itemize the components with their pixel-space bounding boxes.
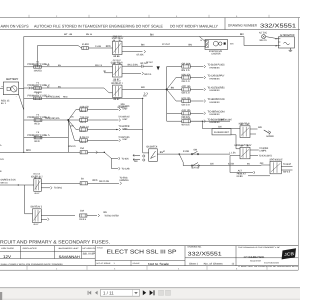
node branch152 <box>104 152 105 153</box>
connector FB4 <box>204 100 206 103</box>
zone numbers bottom <box>56 267 238 270</box>
svg-text:GN 1.0: GN 1.0 <box>182 80 191 83</box>
node boom light tee <box>202 121 203 122</box>
svg-text:GN 0.5: GN 0.5 <box>69 145 77 148</box>
wire left fan ray1 <box>68 110 79 121</box>
wire seat module out2 <box>281 169 292 171</box>
svg-text:DRAWING NUMBER: DRAWING NUMBER <box>228 24 258 28</box>
svg-text:& MOTOR: & MOTOR <box>211 53 220 56</box>
svg-text:-: - <box>16 96 17 99</box>
wire fuse4 row to node <box>24 119 69 121</box>
relay K5 headlight <box>240 147 250 159</box>
wire flasher out <box>231 135 240 149</box>
svg-text:GN: GN <box>210 163 214 166</box>
connector FB6 <box>204 120 206 123</box>
svg-text:TO ACCESSORIES: TO ACCESSORIES <box>208 87 225 90</box>
svg-text:GN 0.5: GN 0.5 <box>144 73 152 76</box>
wire seat module in <box>261 164 270 166</box>
node k6 feed <box>18 184 19 185</box>
wire headlight out upper <box>250 149 259 151</box>
wire battery stub left <box>0 88 3 90</box>
wire battery to bus <box>19 88 24 90</box>
relay K2 glow <box>113 65 123 78</box>
connector secondary <box>96 151 98 154</box>
sheet bottom border <box>0 269 298 271</box>
svg-text:RED: RED <box>35 140 40 143</box>
svg-text:LAMPS: LAMPS <box>259 150 266 153</box>
svg-text:HORN: HORN <box>267 135 274 138</box>
svg-text:RCUIT AND PRIMARY & SECONDARY: RCUIT AND PRIMARY & SECONDARY FUSES. <box>0 239 110 244</box>
node ignition branch <box>179 153 180 154</box>
svg-text:TO IGN: TO IGN <box>122 157 129 160</box>
fuse F3 primary <box>34 97 42 100</box>
svg-text:GN 0.5: GN 0.5 <box>80 121 87 124</box>
svg-text:RED: RED <box>93 179 98 182</box>
toolbar corner block <box>0 292 2 300</box>
svg-text:BN: BN <box>104 211 108 214</box>
scale cell divider <box>130 260 132 265</box>
wire boom light row extension <box>190 120 230 122</box>
fuse FC4 <box>80 139 88 142</box>
svg-text:TO CAB SUPPLY: TO CAB SUPPLY <box>208 75 225 78</box>
svg-text:No. of Sheets: No. of Sheets <box>204 262 224 265</box>
fuse FB3 cab <box>182 88 191 91</box>
svg-text:10A: 10A <box>80 209 85 212</box>
wire main +B bus vertical <box>23 37 25 153</box>
svg-text:GN: GN <box>143 94 147 97</box>
svg-text:GP 30A: GP 30A <box>182 62 191 65</box>
node fuse fan top <box>166 88 168 90</box>
svg-text:IGN RELAY 3: IGN RELAY 3 <box>31 206 43 209</box>
svg-text:86: 86 <box>34 176 36 179</box>
wire fuse1 riser <box>37 46 39 67</box>
svg-text:Sheet 1: Sheet 1 <box>189 262 199 265</box>
wire FB6 out <box>190 120 203 122</box>
connector FB2 <box>204 76 206 79</box>
wire fan ray down-diagonal <box>167 89 176 101</box>
wire k6 drop to k7 <box>24 185 26 214</box>
svg-text:ST 2517: ST 2517 <box>162 43 171 46</box>
relay K1 starter <box>113 41 123 54</box>
seat module U1 <box>270 161 281 174</box>
node fuse fan left <box>67 119 69 121</box>
svg-text:BUSINESS UNIT: BUSINESS UNIT <box>59 247 80 250</box>
wire k6 feed <box>0 184 34 186</box>
connector FC1 <box>119 108 121 111</box>
connector battery splice <box>29 87 30 90</box>
circle key contacts <box>143 155 145 157</box>
sheet header bottom line <box>0 29 300 31</box>
svg-text:BATTERY: BATTERY <box>6 78 18 81</box>
svg-text:TO SEAT: TO SEAT <box>283 163 291 166</box>
svg-text:RED 2.5: RED 2.5 <box>95 64 103 67</box>
connector glow plugs <box>142 65 153 68</box>
connector FB3 <box>204 88 206 91</box>
svg-text:VOLTAGE: VOLTAGE <box>1 247 15 250</box>
node wiper row <box>116 129 117 130</box>
svg-text:BN: BN <box>240 33 244 36</box>
fuse F2 primary <box>34 87 42 90</box>
svg-text:SEAT MODULE: SEAT MODULE <box>270 158 283 161</box>
svg-text:UNIT: UNIT <box>123 138 129 141</box>
svg-text:B GN 0.5: B GN 0.5 <box>80 136 90 139</box>
svg-text:1 / 11: 1 / 11 <box>103 291 114 296</box>
svg-text:GN 2.0: GN 2.0 <box>182 103 191 106</box>
svg-text:TO CAB: TO CAB <box>122 167 130 170</box>
svg-text:TO HEATER FAN: TO HEATER FAN <box>208 98 225 101</box>
svg-text:TITLE: TITLE <box>97 246 104 249</box>
svg-text:TO BOOM LIGHT: TO BOOM LIGHT <box>218 118 232 121</box>
wire alternator feed <box>244 37 278 46</box>
svg-text:RED: RED <box>26 149 31 152</box>
fuse FC3 <box>80 128 88 131</box>
svg-text:ALTERNATOR: ALTERNATOR <box>280 34 295 37</box>
fuse F8 eng <box>80 182 87 185</box>
wire F8 out <box>88 182 120 184</box>
fuse FB2 cab <box>182 76 191 79</box>
svg-text:IGN 15A: IGN 15A <box>182 73 191 76</box>
flasher unit box <box>212 129 231 135</box>
svg-text:UNIT: UNIT <box>123 127 129 130</box>
wire headlight aux drop <box>230 155 240 157</box>
svg-text:J.C.BAMFORD.: J.C.BAMFORD. <box>243 255 265 259</box>
svg-text:SSL III SP: SSL III SP <box>83 253 96 256</box>
sheet right border <box>297 18 299 270</box>
wire branch to ignition connectors <box>112 158 119 160</box>
wire horn out <box>250 128 258 130</box>
svg-text:HT +B: HT +B <box>64 33 72 36</box>
wire wiper row extension <box>123 129 143 131</box>
fuse F9 eng2 <box>80 214 87 217</box>
svg-text:HARNESS: HARNESS <box>210 77 221 80</box>
wire left fan drop <box>67 120 69 152</box>
svg-text:WH 0.5: WH 0.5 <box>260 39 268 42</box>
svg-text:Not to Scale: Not to Scale <box>148 262 169 266</box>
wire FB3 out <box>190 88 203 90</box>
title block bottom line <box>0 265 298 267</box>
wire battery negative diagonal <box>19 95 24 110</box>
ground alternator <box>289 48 293 51</box>
JCB logo <box>282 248 296 259</box>
svg-text:GN: GN <box>218 126 222 129</box>
svg-text:30: 30 <box>247 145 249 148</box>
node fuse3 junction <box>142 98 143 99</box>
connector ignition aux1 <box>133 154 134 157</box>
connector k2 lower <box>142 72 144 75</box>
svg-text:0.5 GN: 0.5 GN <box>228 163 234 166</box>
fuse FB6 cab <box>182 120 191 123</box>
toolbar next button <box>143 290 146 295</box>
svg-text:THE DRAWING IS THE PROPERTY OF: THE DRAWING IS THE PROPERTY OF <box>238 246 280 249</box>
svg-text:IGN 0.5: IGN 0.5 <box>33 173 40 176</box>
wire k2 in lower <box>104 72 113 74</box>
svg-text:HTR 20A: HTR 20A <box>182 97 191 100</box>
switch PTO on ign row <box>191 151 199 155</box>
wire k7 out lower <box>41 218 47 220</box>
connector ignition aux2 <box>133 158 134 161</box>
svg-text:HARNESS: HARNESS <box>210 101 221 104</box>
svg-text:L 1.5A: L 1.5A <box>230 151 236 154</box>
fuse F6 starter relay <box>82 47 89 50</box>
title block values bottom line <box>0 258 95 260</box>
svg-text:12V: 12V <box>3 255 12 259</box>
svg-text:RED(LINK) 50A: RED(LINK) 50A <box>46 117 60 120</box>
zone numbers top <box>56 15 238 18</box>
wire branch diag to connectors <box>104 152 118 168</box>
wire seat switch branch <box>179 154 183 166</box>
svg-text:TO BEACON: TO BEACON <box>208 111 225 114</box>
svg-text:BN 16: BN 16 <box>86 33 93 36</box>
relay K4 horn <box>240 126 250 138</box>
zone ticks bottom <box>27 266 267 270</box>
svg-text:TO DIAG: TO DIAG <box>54 187 62 190</box>
wire ignition feed elbow <box>143 152 149 154</box>
svg-text:HARNESS: HARNESS <box>210 113 221 116</box>
svg-text:30: 30 <box>39 176 41 179</box>
svg-text:FLASHER UNIT: FLASHER UNIT <box>214 131 229 134</box>
connector FB5 <box>204 112 206 115</box>
wire k7 out <box>41 215 75 217</box>
svg-text:GN 1.0: GN 1.0 <box>182 92 191 95</box>
wire k7 feed <box>25 213 33 215</box>
svg-text:IGN RELAY 2: IGN RELAY 2 <box>31 175 43 178</box>
wire fan ray up-diagonal <box>167 78 176 90</box>
connector FC4 <box>119 139 121 142</box>
header separator <box>224 18 226 30</box>
wire k1 out to starter solenoid <box>122 46 205 48</box>
wire fuse2 to ign relay jog <box>104 88 113 93</box>
svg-text:RED: RED <box>106 45 111 48</box>
wire secondary bus row <box>0 151 104 153</box>
wire ignition feed drop <box>142 98 144 153</box>
svg-text:REPLACES: REPLACES <box>23 247 38 250</box>
wire fan ray up <box>166 67 168 90</box>
svg-text:GP 2517: GP 2517 <box>113 59 122 62</box>
svg-text:85 87: 85 87 <box>34 223 40 226</box>
wire seat module lower in <box>248 175 270 177</box>
wire fuse2 row <box>24 87 104 89</box>
wire starter drop <box>199 37 205 42</box>
wire horn relay feed step <box>202 121 240 128</box>
connector lower2 <box>119 157 121 160</box>
wire FB5 out <box>190 112 203 114</box>
wire fuse1 row <box>24 66 113 68</box>
svg-text:15A: 15A <box>80 147 85 150</box>
svg-text:BN 2.5: BN 2.5 <box>182 69 191 72</box>
svg-text:ALT EXC: ALT EXC <box>259 31 267 34</box>
battery B1 <box>3 82 18 95</box>
svg-text:N/C USED ON: N/C USED ON <box>82 247 96 250</box>
svg-text:50A RED(LINK): 50A RED(LINK) <box>46 95 60 98</box>
svg-text:ACC 15A: ACC 15A <box>182 85 191 88</box>
connector alt sense <box>254 171 256 174</box>
svg-text:86: 86 <box>241 123 243 126</box>
svg-text:BN: BN <box>141 43 145 46</box>
svg-text:LTS 15A: LTS 15A <box>182 117 191 120</box>
svg-text:IGN SWITCH: IGN SWITCH <box>146 145 157 148</box>
svg-text:UNIT: UNIT <box>123 107 129 110</box>
wire left fan ray4 <box>68 120 79 140</box>
line under drawing number <box>185 257 298 259</box>
alternator G1 <box>278 37 294 48</box>
svg-text:ST 25A: ST 25A <box>136 53 143 56</box>
svg-text:332/X5551: 332/X5551 <box>188 251 222 257</box>
svg-text:JCB: JCB <box>284 251 295 257</box>
wire FC3 out <box>87 129 118 131</box>
fuse FC2 <box>80 118 88 121</box>
svg-text:BN: BN <box>258 126 262 129</box>
wire left fan ray2 <box>68 119 79 121</box>
wire seat switch row <box>183 165 261 167</box>
relay K6 ign2 <box>34 179 42 192</box>
svg-text:GN/RED 0.5 GN: GN/RED 0.5 GN <box>1 179 16 182</box>
sheet top border line <box>0 17 300 19</box>
exciter lamp L1 <box>262 35 266 39</box>
svg-text:86: 86 <box>241 145 243 148</box>
svg-text:BN: BN <box>150 33 154 36</box>
connector k3 aux <box>144 92 145 94</box>
svg-text:SAVANNAH: SAVANNAH <box>59 255 81 259</box>
wire alt sense <box>230 156 253 173</box>
fuse FC1 <box>80 108 88 111</box>
switch seat on row <box>191 163 199 167</box>
wire FC2 out <box>87 119 118 121</box>
connector horn diagonal <box>264 130 270 133</box>
svg-text:C/U: C/U <box>0 158 4 161</box>
wire k2 out upper <box>122 65 141 67</box>
connector F8 <box>120 182 122 185</box>
wire FB1 out <box>190 66 203 68</box>
fuse FB5 cab <box>182 112 191 115</box>
wire FB4 out <box>190 100 203 102</box>
fuse FB4 cab <box>182 99 191 102</box>
svg-text:B+ 1: B+ 1 <box>1 102 7 105</box>
wire fan ray right <box>167 88 182 90</box>
connector k7 lower <box>48 218 50 221</box>
svg-text:SCALE: SCALE <box>133 262 141 265</box>
toolbar prev button <box>95 291 98 295</box>
svg-text:85 87: 85 87 <box>114 78 121 81</box>
svg-text:332/X5551: 332/X5551 <box>260 23 296 30</box>
svg-text:AWN ON VESYS: AWN ON VESYS <box>1 23 29 28</box>
wire starter relay feed <box>38 46 113 49</box>
wire F9 out <box>87 215 97 217</box>
svg-text:BN 2.5 BN: BN 2.5 BN <box>128 63 138 66</box>
svg-text:GN 0.5: GN 0.5 <box>80 141 87 144</box>
title block column lines <box>20 246 236 266</box>
svg-text:SEAT SW: SEAT SW <box>191 166 200 169</box>
svg-text:85 87: 85 87 <box>35 192 41 195</box>
fuse FB1 cab <box>182 65 191 68</box>
connector lower1 <box>119 167 121 170</box>
svg-text:85 86: 85 86 <box>114 55 121 58</box>
svg-text:GN 0.5 GN: GN 0.5 GN <box>99 180 109 183</box>
wire fan drop <box>166 89 168 121</box>
svg-text:7 GN 0.5A: 7 GN 0.5A <box>80 116 89 119</box>
wire fan row5 stub <box>167 112 182 114</box>
toolbar last page button <box>150 290 155 295</box>
svg-text:0.5 BN: 0.5 BN <box>183 150 189 153</box>
fuse F5 primary <box>34 136 42 139</box>
svg-text:5A: 5A <box>81 177 84 180</box>
svg-text:BN: BN <box>134 160 138 163</box>
svg-text:TO ENG SYSTEM: TO ENG SYSTEM <box>105 214 119 217</box>
scale row top line <box>95 259 185 261</box>
wire fuse5 row <box>24 137 69 139</box>
starter motor M1 <box>205 40 228 50</box>
fuse F4 primary <box>34 119 42 122</box>
svg-text:BN: BN <box>141 86 145 89</box>
svg-text:TO GLOW PLUGS: TO GLOW PLUGS <box>208 64 225 67</box>
relay K3 ignition 1 <box>113 85 123 97</box>
wire fan row6 stub <box>167 120 182 122</box>
wire k2 out lower <box>122 72 141 74</box>
svg-text:GN 0.5: GN 0.5 <box>80 110 87 113</box>
svg-text:30: 30 <box>247 123 249 126</box>
ground glow plugs arrow <box>157 66 160 70</box>
svg-text:PWR 2517: PWR 2517 <box>113 35 123 38</box>
svg-text:HARNESS: HARNESS <box>210 89 221 92</box>
svg-text:BN: BN <box>189 43 193 46</box>
connector k1 lower <box>144 50 146 53</box>
svg-text:GN 0.5: GN 0.5 <box>79 218 87 221</box>
wire seat module out1 <box>281 165 292 167</box>
toolbar page box <box>101 289 140 296</box>
svg-text:40A RED: 40A RED <box>34 70 42 73</box>
connector FC3 <box>119 128 121 131</box>
svg-text:5A RED: 5A RED <box>82 43 89 46</box>
svg-text:WH 0.5: WH 0.5 <box>1 182 9 185</box>
svg-text:AUTOCAD FILE STORED IN TEAMCEN: AUTOCAD FILE STORED IN TEAMCENTER ENGINE… <box>34 23 163 28</box>
wire FC4 out <box>87 139 118 141</box>
svg-text:UNIT: UNIT <box>123 118 129 121</box>
wire k6 out lower <box>41 187 50 189</box>
svg-text:TO HEADLIGHTS: TO HEADLIGHTS <box>259 154 272 157</box>
svg-text:4 GN 0.5A: 4 GN 0.5A <box>80 105 89 108</box>
svg-text:HARNESS: HARNESS <box>120 179 129 182</box>
wire exciter to alternator <box>266 37 279 39</box>
zone ticks top <box>29 15 269 18</box>
wire horn out lower <box>250 133 256 135</box>
toolbar background <box>0 288 300 300</box>
svg-text:ALT: ALT <box>238 170 243 173</box>
svg-text:STAFFORDSHIRE: STAFFORDSHIRE <box>264 261 280 264</box>
relay K7 ign3 <box>33 209 42 223</box>
wire left fan ray3 <box>68 120 79 130</box>
wire fuse3 row long <box>24 97 143 99</box>
svg-text:RED: RED <box>63 95 68 98</box>
svg-text:N/T AT ISSUE: N/T AT ISSUE <box>97 262 112 265</box>
wire ignition row to seat <box>225 153 230 155</box>
svg-text:HEADLIGHT RELAY: HEADLIGHT RELAY <box>235 144 252 147</box>
svg-text:W: W <box>275 44 277 47</box>
wire FB2 out <box>190 77 203 79</box>
svg-text:HARNESS: HARNESS <box>210 66 221 69</box>
svg-text:85 87: 85 87 <box>114 98 121 101</box>
svg-text:GN BN: GN BN <box>237 175 243 178</box>
connector k6 lower <box>51 186 53 189</box>
fuse F7 secondary <box>80 151 87 154</box>
svg-text:SW 0.5: SW 0.5 <box>283 171 291 174</box>
svg-text:WH: WH <box>230 43 234 46</box>
wire ignition out IG <box>157 153 225 155</box>
title block header divider <box>0 251 95 253</box>
svg-text:GN: GN <box>260 162 264 165</box>
wire headlight out lower <box>250 155 258 157</box>
svg-text:DRAWING NO.: DRAWING NO. <box>188 246 202 249</box>
connector FB1 <box>204 65 206 68</box>
svg-text:A GN 1.0: A GN 1.0 <box>80 125 90 128</box>
